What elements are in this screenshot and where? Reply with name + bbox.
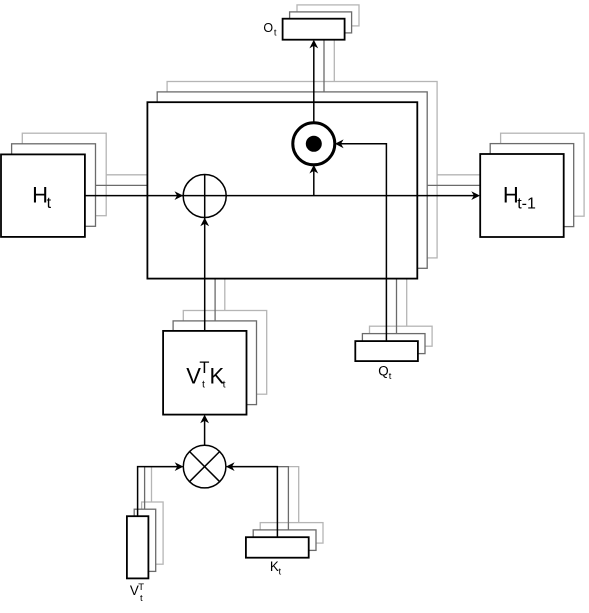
box Ot copy1 <box>290 12 352 33</box>
label Ot <box>263 21 277 39</box>
box main cell copy1 <box>157 92 427 268</box>
arrowhead into sum from left <box>175 191 184 200</box>
arrowhead into dot from right <box>335 139 344 148</box>
box Ht <box>1 154 85 237</box>
box Ht copy2 <box>22 133 106 216</box>
label Ht <box>32 183 52 213</box>
box Ht-1 copy1 <box>490 144 574 227</box>
svg-text:T: T <box>199 359 209 377</box>
svg-text:t: t <box>389 371 392 382</box>
wire Ht copy2 to Ht-1 copy2 <box>105 174 500 176</box>
box Vt copy2 <box>142 502 164 564</box>
label Ht-1 <box>503 183 536 213</box>
wire Qt elbow to dot <box>340 144 386 341</box>
wire Qt copy2 up <box>406 268 408 326</box>
arrowhead into dot from below <box>309 165 318 174</box>
wire Qt copy1 up <box>396 268 398 334</box>
svg-text:t: t <box>140 593 143 604</box>
arrowhead into Ot <box>309 40 318 49</box>
box Ot <box>283 19 345 40</box>
svg-text:t: t <box>223 379 226 391</box>
arrowhead into times from right <box>226 462 235 471</box>
box main cell <box>147 102 417 278</box>
svg-text:O: O <box>263 21 273 35</box>
box Qt copy2 <box>370 326 433 346</box>
svg-text:t: t <box>202 379 205 391</box>
svg-text:t-1: t-1 <box>517 196 536 213</box>
wire VtKt up through sum <box>204 175 206 331</box>
wire Kt copy2 elbow to times <box>226 467 299 523</box>
svg-text:t: t <box>274 27 277 38</box>
wire Ht to Ht-1 main <box>85 195 474 197</box>
box main cell copy2 <box>167 82 437 258</box>
svg-text:H: H <box>32 183 48 208</box>
hadamard dot circle <box>293 123 335 165</box>
label Qt <box>378 364 392 382</box>
wire dot copy2 up to Ot copy2 <box>333 26 335 126</box>
box VtKt <box>163 331 246 415</box>
wire Kt elbow to times <box>231 467 277 538</box>
wire VtKt copy1 up to sum copy1 <box>214 228 216 321</box>
arrowhead into Ht-1 <box>471 191 480 200</box>
box Vt copy1 <box>134 509 156 571</box>
wire Ht copy1 to Ht-1 copy1 <box>95 184 490 186</box>
box Ot copy2 <box>297 5 359 26</box>
wire dot copy1 up to Ot copy1 <box>323 33 325 136</box>
box Qt <box>355 341 418 361</box>
label Kt <box>270 559 282 577</box>
arrowhead into VtKt from below <box>200 415 209 424</box>
label VtKt <box>186 359 225 390</box>
wire main line up to dot <box>313 170 315 196</box>
wire Kt copy1 elbow to times <box>226 467 289 530</box>
arrowhead into sum from below <box>200 218 209 227</box>
box Ht-1 <box>480 154 564 237</box>
arrowhead into times from left <box>175 462 184 471</box>
op-amp sum circle (plus) <box>183 175 226 218</box>
box Ht copy1 <box>12 144 96 227</box>
svg-text:t: t <box>279 567 282 578</box>
label Vt <box>130 582 144 604</box>
box Kt copy2 <box>260 523 323 544</box>
wire VtKt copy2 up to sum copy2 <box>224 238 226 311</box>
svg-text:t: t <box>47 195 52 212</box>
box VtKt copy2 <box>183 311 266 395</box>
wire dot to Ot <box>313 45 315 123</box>
svg-text:T: T <box>138 582 144 593</box>
svg-text:Q: Q <box>378 364 388 379</box>
wire times to VtKt <box>204 420 206 445</box>
wire Vt copy2 elbow to times <box>152 467 184 502</box>
box Kt copy1 <box>253 530 316 551</box>
times circle (cross) <box>183 445 226 488</box>
box VtKt copy1 <box>173 321 256 405</box>
box Kt <box>246 537 309 558</box>
wire Vt elbow to times <box>138 467 178 517</box>
box Qt copy1 <box>362 334 425 354</box>
box Vt <box>127 516 148 578</box>
box Ht-1 copy2 <box>501 133 584 216</box>
wire Vt copy1 elbow to times <box>145 467 184 510</box>
